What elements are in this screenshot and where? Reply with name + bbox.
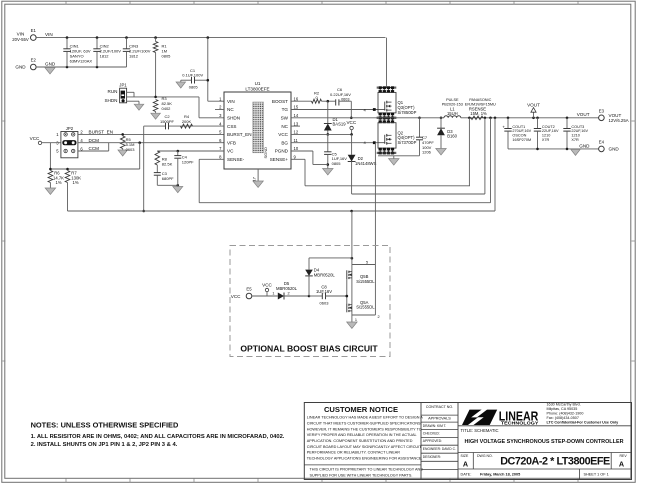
svg-text:CHECKED:: CHECKED: — [423, 431, 440, 435]
svg-text:5: 5 — [366, 260, 368, 264]
svg-text:RUN: RUN — [108, 89, 118, 94]
svg-text:E2: E2 — [31, 58, 37, 63]
svg-text:Fax: (408)434-0507: Fax: (408)434-0507 — [547, 416, 579, 420]
svg-text:THIS CIRCUIT IS PROPRIETARY TO: THIS CIRCUIT IS PROPRIETARY TO LINEAR TE… — [310, 468, 424, 472]
svg-text:SHDN: SHDN — [104, 98, 117, 103]
svg-text:APPLICATION. COMPONENT SUBSTIT: APPLICATION. COMPONENT SUBSTITUTION AND … — [307, 439, 413, 443]
svg-text:Milpitas, CA 95035: Milpitas, CA 95035 — [547, 407, 578, 411]
svg-text:DATE:: DATE: — [461, 472, 472, 476]
svg-text:Si1555DL: Si1555DL — [356, 305, 375, 310]
svg-text:DCM: DCM — [89, 138, 100, 143]
svg-text:1812: 1812 — [100, 53, 110, 58]
svg-text:TITLE: SCHEMATIC: TITLE: SCHEMATIC — [461, 428, 499, 433]
svg-text:COUT1: COUT1 — [512, 125, 525, 129]
svg-text:MBR0520L: MBR0520L — [276, 286, 298, 291]
svg-text:Phone: (408)432-1900: Phone: (408)432-1900 — [547, 412, 584, 416]
svg-text:680PF: 680PF — [162, 176, 174, 181]
svg-text:VOUT: VOUT — [577, 112, 590, 117]
svg-text:JP1: JP1 — [119, 83, 127, 88]
svg-text:270UF,16V: 270UF,16V — [512, 129, 531, 133]
svg-text:E4: E4 — [599, 140, 605, 145]
svg-text:13: 13 — [294, 121, 299, 126]
svg-text:1630 McCarthy Blvd.: 1630 McCarthy Blvd. — [547, 403, 581, 407]
svg-text:NOTES: UNLESS OTHERWISE SPECI: NOTES: UNLESS OTHERWISE SPECIFIED — [31, 421, 179, 430]
svg-text:SW: SW — [281, 116, 289, 121]
svg-text:SHDN: SHDN — [227, 116, 240, 121]
svg-text:CSS: CSS — [227, 124, 236, 129]
svg-text:1UF,16V: 1UF,16V — [316, 289, 332, 294]
svg-text:GND: GND — [15, 65, 26, 70]
svg-text:CONTRACT NO.: CONTRACT NO. — [426, 405, 453, 409]
svg-text:HOWEVER, IT REMAINS THE CUSTOM: HOWEVER, IT REMAINS THE CUSTOMER'S RESPO… — [307, 427, 422, 431]
svg-text:X7R: X7R — [542, 138, 550, 142]
svg-text:0402: 0402 — [162, 106, 172, 111]
svg-text:63MV120AX: 63MV120AX — [70, 58, 93, 63]
svg-text:1%: 1% — [56, 180, 62, 185]
svg-text:BURST_EN: BURST_EN — [227, 132, 252, 137]
svg-text:DWG NO.: DWG NO. — [477, 454, 493, 458]
svg-text:HIGH VOLTAGE SYNCHRONOUS STEP-: HIGH VOLTAGE SYNCHRONOUS STEP-DOWN CONTR… — [465, 439, 624, 445]
svg-text:SUPPLIED FOR USE WITH LINEAR T: SUPPLIED FOR USE WITH LINEAR TECHNOLOGY … — [310, 473, 413, 477]
svg-text:0603: 0603 — [320, 300, 330, 305]
svg-text:LINEAR TECHNOLOGY HAS MADE A B: LINEAR TECHNOLOGY HAS MADE A BEST EFFORT… — [307, 416, 424, 420]
svg-text:ENGINEER: DAVID C.: ENGINEER: DAVID C. — [423, 447, 456, 451]
svg-text:APPROVED:: APPROVED: — [423, 439, 442, 443]
svg-text:A: A — [619, 459, 624, 468]
svg-text:VCC: VCC — [346, 120, 356, 125]
svg-text:0805: 0805 — [162, 53, 172, 58]
svg-text:E5: E5 — [246, 286, 252, 291]
svg-text:Friday, March 18, 2005: Friday, March 18, 2005 — [480, 472, 520, 476]
svg-text:CIRCUIT THAT MEETS CUSTOMER-SU: CIRCUIT THAT MEETS CUSTOMER-SUPPLIED SPE… — [307, 421, 422, 425]
svg-text:82.5K: 82.5K — [162, 162, 173, 167]
svg-text:OPTIONAL BOOST BIAS CIRCUIT: OPTIONAL BOOST BIAS CIRCUIT — [240, 344, 378, 354]
svg-text:12: 12 — [294, 130, 299, 135]
svg-text:VIN: VIN — [45, 32, 53, 37]
svg-text:X7R: X7R — [571, 138, 579, 142]
svg-text:VFB: VFB — [227, 140, 236, 145]
svg-text:CCM: CCM — [89, 146, 100, 151]
svg-text:0603: 0603 — [126, 147, 136, 152]
svg-text:OSCON: OSCON — [512, 134, 526, 138]
svg-text:COUT3: COUT3 — [571, 125, 584, 129]
svg-text:120PF: 120PF — [182, 159, 194, 164]
svg-text:E3: E3 — [599, 108, 605, 113]
svg-text:VCC: VCC — [262, 282, 272, 287]
svg-text:16: 16 — [294, 96, 299, 101]
svg-text:14: 14 — [294, 113, 299, 118]
svg-text:0805: 0805 — [332, 161, 342, 166]
svg-text:200K: 200K — [182, 119, 192, 124]
svg-text:APPROVALS: APPROVALS — [428, 416, 451, 420]
svg-text:2: 2 — [378, 315, 380, 319]
svg-text:1812: 1812 — [129, 53, 139, 58]
svg-text:BOOST: BOOST — [272, 99, 288, 104]
svg-text:REV: REV — [620, 454, 628, 458]
svg-text:2. INSTALL SHUNTS ON JP1 PIN: 2. INSTALL SHUNTS ON JP1 PIN 1 & 2, JP2 … — [31, 442, 178, 448]
svg-text:GND: GND — [579, 143, 590, 148]
svg-text:1210: 1210 — [571, 134, 579, 138]
svg-text:0805: 0805 — [189, 85, 199, 90]
svg-text:12V/6.25A: 12V/6.25A — [609, 118, 629, 123]
svg-text:BAS19: BAS19 — [333, 122, 347, 127]
svg-text:PGND: PGND — [275, 149, 289, 154]
svg-text:NC: NC — [281, 124, 288, 129]
svg-text:DRAWN: KIM T.: DRAWN: KIM T. — [423, 424, 447, 428]
svg-text:15: 15 — [294, 105, 299, 110]
svg-text:10: 10 — [294, 146, 299, 151]
svg-text:COUT2: COUT2 — [542, 125, 555, 129]
svg-text:Si7370DP: Si7370DP — [398, 140, 417, 145]
svg-text:GND: GND — [45, 61, 56, 66]
svg-text:NC: NC — [227, 107, 234, 112]
svg-text:SENSE-: SENSE- — [227, 157, 245, 162]
svg-text:VIN: VIN — [227, 99, 235, 104]
svg-text:TECHNOLOGY: TECHNOLOGY — [501, 421, 539, 426]
svg-text:1%: 1% — [73, 180, 79, 185]
svg-text:1N4148WS: 1N4148WS — [355, 161, 377, 166]
svg-text:VOUT: VOUT — [527, 102, 540, 107]
svg-text:LTC Confidential-For Customer: LTC Confidential-For Customer Use Only — [547, 420, 620, 424]
svg-text:BG: BG — [281, 140, 288, 145]
svg-text:BURST_EN: BURST_EN — [89, 130, 114, 135]
svg-text:VCC: VCC — [30, 136, 40, 141]
svg-text:15M, 1%: 15M, 1% — [470, 111, 487, 116]
svg-text:22UF,16V: 22UF,16V — [542, 129, 559, 133]
svg-text:E1: E1 — [31, 28, 37, 33]
svg-text:TECHNOLOGY APPLICATIONS ENGINE: TECHNOLOGY APPLICATIONS ENGINEERING FOR … — [307, 456, 423, 460]
svg-text:B160: B160 — [447, 134, 457, 139]
svg-text:GND: GND — [609, 147, 620, 152]
svg-text:SHEET 1 OF 1: SHEET 1 OF 1 — [584, 472, 609, 476]
svg-text:1206: 1206 — [422, 150, 432, 155]
svg-text:0.22UF,16V: 0.22UF,16V — [330, 92, 351, 97]
svg-text:16SP270M: 16SP270M — [512, 138, 531, 142]
svg-text:1: 1 — [272, 292, 274, 296]
svg-text:U1: U1 — [255, 81, 261, 86]
svg-text:A: A — [463, 459, 468, 468]
svg-text:1210: 1210 — [542, 134, 550, 138]
svg-text:1. ALL RESISITOR ARE IN OHMS,: 1. ALL RESISITOR ARE IN OHMS, 0402; AND … — [31, 434, 285, 440]
svg-text:2: 2 — [288, 292, 290, 296]
svg-text:DC720A-2 * LT3800EFE: DC720A-2 * LT3800EFE — [500, 456, 610, 468]
svg-text:CUSTOMER NOTICE: CUSTOMER NOTICE — [324, 405, 398, 414]
svg-text:LT3800EFE: LT3800EFE — [245, 86, 269, 91]
svg-text:VERIFY PROPER AND RELIABLE OPE: VERIFY PROPER AND RELIABLE OPERATION IN … — [307, 433, 417, 437]
svg-text:VCC: VCC — [231, 294, 241, 299]
svg-text:1500PF: 1500PF — [160, 119, 175, 124]
svg-text:MBR0520L: MBR0520L — [314, 272, 336, 277]
svg-text:SGND: SGND — [263, 147, 268, 159]
svg-text:DESIGNER:: DESIGNER: — [423, 455, 441, 459]
svg-text:1: 1 — [355, 318, 357, 322]
svg-text:SIZE: SIZE — [461, 454, 469, 458]
svg-text:PERFORMANCE OR RELIABILITY. C: PERFORMANCE OR RELIABILITY. CONTACT LINE… — [307, 451, 400, 455]
svg-text:0.1UF,100V: 0.1UF,100V — [182, 72, 203, 77]
svg-text:CIRCUIT BOARD LAYOUT MAY SIGNI: CIRCUIT BOARD LAYOUT MAY SIGNIFICANTLY A… — [307, 445, 422, 449]
svg-text:Si7850DP: Si7850DP — [398, 110, 417, 115]
svg-text:22UF,16V: 22UF,16V — [571, 129, 588, 133]
svg-text:Si1555DL: Si1555DL — [356, 279, 375, 284]
svg-text:SENSE+: SENSE+ — [270, 157, 289, 162]
svg-text:JP2: JP2 — [66, 126, 74, 131]
svg-text:15UH: 15UH — [447, 111, 458, 116]
svg-text:VC: VC — [227, 149, 234, 154]
svg-text:20V-55V: 20V-55V — [12, 37, 29, 42]
svg-text:TG: TG — [282, 107, 289, 112]
svg-text:VIN: VIN — [17, 32, 25, 37]
svg-text:VCC: VCC — [278, 132, 288, 137]
svg-text:11: 11 — [294, 138, 299, 143]
